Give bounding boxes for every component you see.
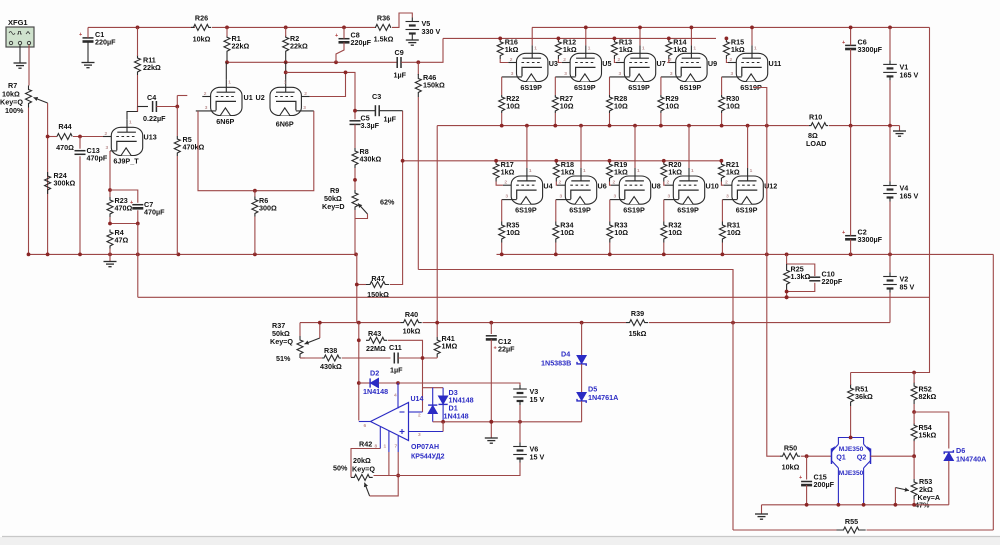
wire XFG1 right terminal down to R7 — [28, 45, 30, 86]
triode U1 — [196, 79, 242, 126]
wire U10 plate to output rail — [688, 126, 690, 168]
wire diode pair top link — [423, 387, 444, 389]
svg-text:U5: U5 — [602, 59, 611, 68]
wire D6 bottom — [948, 461, 950, 505]
svg-text:3: 3 — [668, 194, 671, 200]
resistor R31 cathode — [719, 221, 740, 243]
resistor R5 — [174, 135, 204, 156]
resistor R30 cathode — [719, 94, 740, 113]
svg-text:470kΩ: 470kΩ — [183, 143, 205, 152]
wire U14 output — [359, 421, 371, 423]
function generator XFG1 — [6, 18, 34, 47]
wire plate row 62 — [227, 61, 397, 63]
svg-text:6: 6 — [364, 423, 367, 429]
wire R44 left lead — [48, 136, 57, 138]
wire R13 to grid — [614, 59, 616, 63]
wire R21 to grid — [721, 182, 723, 186]
wire R23 bottom to C7 bottom — [110, 210, 138, 223]
wire C1 top — [87, 27, 89, 38]
svg-text:1N4740A: 1N4740A — [956, 455, 986, 464]
wire R12 to grid — [558, 59, 561, 63]
junction dots bank1 grid wire — [498, 37, 728, 41]
wire R22 to output rail — [501, 113, 503, 126]
wire R25C10 bottom link — [787, 283, 815, 292]
junction R52 top — [912, 371, 916, 375]
svg-text:1kΩ: 1kΩ — [673, 45, 687, 54]
wire U12 plate to output rail — [747, 126, 749, 168]
ground below XFG1 — [14, 63, 27, 68]
resistor R20 grid stopper — [661, 160, 682, 182]
wire R15 to grid — [726, 59, 728, 63]
svg-text:1: 1 — [642, 45, 645, 51]
svg-text:6S19P: 6S19P — [623, 206, 645, 215]
wire U5 cathode to R27 — [554, 77, 556, 95]
wire R28 to output rail — [609, 113, 611, 126]
ground below R4 — [104, 262, 117, 267]
svg-text:1: 1 — [691, 168, 694, 174]
wire U3 cathode to R22 — [501, 77, 503, 95]
svg-text:10kΩ: 10kΩ — [782, 463, 800, 472]
wire R30 to output rail — [721, 113, 723, 126]
wire R16 to grid — [500, 59, 508, 63]
svg-text:51%: 51% — [276, 354, 291, 363]
svg-text:470Ω: 470Ω — [56, 143, 74, 152]
junction top rail — [136, 26, 346, 30]
potentiometer R53 body — [911, 479, 917, 499]
resistor R11 — [135, 55, 161, 75]
resistor R4 — [107, 228, 128, 249]
svg-text:3: 3 — [731, 71, 734, 77]
svg-text:1µF: 1µF — [394, 71, 407, 80]
wire C6 top — [850, 27, 852, 45]
svg-text:1kΩ: 1kΩ — [668, 167, 682, 176]
wire D5 bottom — [581, 401, 583, 422]
junction dots bottom left rail — [27, 253, 358, 257]
svg-text:220µF: 220µF — [95, 38, 116, 47]
wire long rail 297 — [138, 296, 930, 298]
wire R23 top to C7 top — [110, 190, 138, 203]
wire R36 to V5 — [392, 13, 412, 27]
junction C15 top — [805, 454, 809, 458]
junction C11 node — [421, 356, 425, 360]
wire ground row stem — [761, 505, 763, 514]
resistor R34 cathode — [553, 221, 574, 243]
svg-text:6J9P_T: 6J9P_T — [113, 157, 139, 166]
wire opamp vplus pin — [397, 383, 399, 409]
capacitor C10 — [809, 270, 843, 287]
wire 733 column — [732, 270, 734, 531]
junction dots output rail — [500, 124, 769, 128]
resistor R40 — [401, 310, 422, 336]
wire C7 bottom down to long rail — [137, 224, 139, 298]
svg-text:1kΩ: 1kΩ — [731, 45, 745, 54]
svg-text:3: 3 — [511, 71, 514, 77]
wire right tall vertical — [992, 254, 994, 530]
junction emitter mid — [849, 436, 853, 440]
svg-text:10Ω: 10Ω — [560, 228, 574, 237]
op-amp U14 — [364, 396, 445, 461]
capacitor C1 — [79, 30, 116, 47]
diode D6 1N4740A — [944, 446, 986, 464]
svg-text:U13: U13 — [144, 133, 157, 142]
potentiometer R7 body — [26, 86, 32, 108]
junction R37 wiper — [318, 321, 322, 325]
svg-text:U8: U8 — [652, 182, 661, 191]
wire R47 right up to C3 — [390, 111, 403, 285]
svg-text:1kΩ: 1kΩ — [501, 167, 515, 176]
junction R52 bottom — [912, 410, 916, 414]
triode U4 6S19P — [502, 168, 553, 215]
svg-text:D2: D2 — [370, 369, 379, 378]
wire row 72 U2 plate to C5 — [286, 72, 355, 119]
wire U10 cathode to R32 — [663, 200, 665, 222]
junction R4 top — [108, 222, 140, 226]
svg-text:10Ω: 10Ω — [614, 228, 628, 237]
wire output rail — [437, 125, 806, 127]
svg-text:1N5383B: 1N5383B — [541, 359, 571, 368]
wire U2 grid right up — [310, 72, 346, 96]
resistor R27 cathode — [552, 94, 573, 113]
svg-text:1: 1 — [693, 45, 696, 51]
svg-text:3300µF: 3300µF — [858, 235, 883, 244]
svg-text:1N4761A: 1N4761A — [588, 393, 618, 402]
ground right of V1 — [893, 131, 906, 136]
wire U13 cathode to R23 — [109, 151, 111, 197]
svg-text:0.22µF: 0.22µF — [143, 114, 166, 123]
junction R44 wiper node — [46, 135, 50, 139]
resistor R6 — [252, 196, 277, 217]
wire D1 bottom — [432, 414, 434, 422]
svg-text:U9: U9 — [708, 59, 717, 68]
svg-text:3: 3 — [205, 105, 208, 111]
svg-text:C9: C9 — [395, 48, 404, 57]
junction R6 top — [253, 189, 257, 193]
potentiometer R37 body — [297, 336, 303, 358]
wire R54 bottom — [913, 441, 915, 456]
wire C9 right to grid wire riser — [401, 38, 443, 62]
wire V2 top — [889, 254, 891, 272]
svg-text:6S19P: 6S19P — [628, 83, 650, 92]
wire plate rail to right corner — [852, 26, 930, 28]
svg-text:1: 1 — [129, 119, 132, 125]
svg-text:1kΩ: 1kΩ — [614, 167, 628, 176]
wire R25C10 top link — [787, 264, 815, 276]
svg-text:10Ω: 10Ω — [560, 102, 574, 111]
wire R31 to cathode rail — [721, 243, 723, 255]
wire U9 plate to rail — [690, 27, 692, 45]
svg-text:2: 2 — [669, 57, 672, 63]
svg-text:3: 3 — [726, 194, 729, 200]
wire U14 + input up — [442, 422, 444, 432]
svg-text:10Ω: 10Ω — [665, 102, 679, 111]
resistor R50 — [780, 444, 800, 472]
svg-text:1kΩ: 1kΩ — [505, 45, 519, 54]
svg-text:1: 1 — [534, 45, 537, 51]
resistor R8 — [352, 147, 381, 168]
wire R52 bottom — [913, 404, 915, 412]
svg-text:2: 2 — [563, 57, 566, 63]
resistor R17 grid stopper — [493, 160, 514, 182]
wire R50 feed from U11 cathode — [753, 88, 780, 457]
svg-text:10Ω: 10Ω — [726, 102, 740, 111]
wire rail to V2 — [649, 322, 890, 324]
diode D4 1N5383B — [541, 350, 586, 368]
junction diode bottom row — [441, 420, 522, 424]
svg-text:U2: U2 — [256, 93, 265, 102]
svg-text:82kΩ: 82kΩ — [919, 392, 937, 401]
svg-text:1: 1 — [583, 168, 586, 174]
svg-text:1: 1 — [637, 168, 640, 174]
wire C4 left lead — [138, 106, 149, 108]
R53 wiper arrow — [895, 488, 909, 492]
R37 wiper arrow — [305, 338, 320, 345]
wire R46 top lead — [417, 62, 419, 75]
junction C3 left on C5 column — [353, 109, 357, 113]
svg-text:1µF: 1µF — [390, 366, 403, 375]
wire opamp rail — [300, 322, 401, 324]
svg-text:430kΩ: 430kΩ — [320, 362, 342, 371]
wire bank1 grid wire — [443, 37, 716, 39]
ground output row — [755, 514, 768, 519]
triode U11 6S19P — [722, 45, 782, 92]
capacitor C12 — [486, 336, 515, 354]
wire R46 bottom long drop — [417, 97, 419, 270]
resistor R51 — [848, 384, 873, 406]
svg-text:U14: U14 — [411, 396, 424, 403]
junction dots ground row — [805, 503, 916, 507]
svg-text:2: 2 — [618, 57, 621, 63]
svg-text:R43: R43 — [368, 329, 381, 338]
svg-text:U11: U11 — [769, 59, 782, 68]
svg-text:+: + — [842, 230, 845, 236]
junction row62 — [225, 60, 338, 64]
wire C4 right to U1 grid column — [156, 96, 177, 107]
svg-text:15kΩ: 15kΩ — [629, 329, 647, 338]
junction C13 top — [78, 135, 82, 139]
svg-text:1.5kΩ: 1.5kΩ — [374, 35, 394, 44]
capacitor C5 — [350, 114, 380, 131]
wire C15 top — [806, 456, 808, 479]
svg-text:100%: 100% — [5, 106, 24, 115]
wire R34 to cathode rail — [555, 243, 557, 255]
resistor R28 cathode — [607, 94, 628, 113]
wire R47 left lead — [357, 284, 366, 286]
svg-text:2: 2 — [730, 57, 733, 63]
junction long rail — [785, 295, 789, 299]
svg-text:C4: C4 — [147, 93, 156, 102]
svg-text:U7: U7 — [657, 59, 666, 68]
R53 labels — [915, 477, 940, 510]
ground below C1 — [82, 63, 95, 68]
svg-text:1: 1 — [754, 45, 757, 51]
resistor R1 — [224, 34, 249, 53]
svg-text:Key=Q: Key=Q — [352, 465, 375, 474]
resistor R38 — [320, 346, 342, 371]
triode U6 6S19P — [556, 168, 607, 215]
wire Q1 emitter up — [838, 438, 863, 445]
svg-text:10Ω: 10Ω — [727, 228, 741, 237]
svg-text:470µF: 470µF — [144, 208, 165, 217]
svg-text:3: 3 — [614, 194, 617, 200]
wire R51 top — [850, 373, 852, 386]
wire R19 to grid — [610, 182, 612, 186]
wire R51 bottom to emitters — [850, 406, 852, 438]
wire R43 left column — [358, 323, 360, 421]
svg-text:Q1: Q1 — [836, 452, 846, 461]
R9 labels — [322, 186, 395, 211]
wire C2 bottom — [850, 239, 852, 254]
wire R10 row — [806, 125, 809, 127]
resistor R18 grid stopper — [553, 160, 574, 182]
wire R53 bottom — [913, 499, 915, 505]
capacitor C15 — [799, 473, 835, 490]
svg-text:+: + — [335, 33, 338, 39]
R9 wiper arrow — [358, 204, 368, 215]
wire U5 plate to rail — [585, 27, 587, 45]
wire C13 top lead — [79, 137, 81, 149]
svg-text:2: 2 — [204, 91, 207, 97]
svg-text:3: 3 — [418, 432, 421, 438]
wire U8 plate to output rail — [634, 126, 636, 168]
wire R9 bottom to rail — [354, 210, 356, 254]
wire U14 pin1 down — [388, 452, 390, 476]
wire cathode rail — [497, 253, 994, 255]
diode D2 1N4148 — [363, 369, 388, 397]
triode U10 6S19P — [664, 168, 719, 215]
wire R2 bottom to row62 — [285, 53, 287, 62]
wire R10 right row — [829, 125, 900, 127]
resistor R55 — [837, 517, 866, 545]
wire R53 wiper down — [894, 488, 896, 505]
svg-text:2: 2 — [613, 180, 616, 186]
svg-text:1kΩ: 1kΩ — [563, 45, 577, 54]
svg-text:330 V: 330 V — [422, 27, 441, 36]
svg-text:КР544УД2: КР544УД2 — [411, 454, 445, 461]
resistor R42 pot body — [351, 474, 373, 480]
wire R54 top — [913, 412, 915, 424]
pin4 label — [394, 393, 397, 399]
svg-text:R50: R50 — [784, 444, 797, 453]
wire R25 top — [786, 254, 788, 264]
svg-text:15 V: 15 V — [530, 453, 545, 462]
resistor R24 — [45, 171, 76, 194]
svg-text:10Ω: 10Ω — [614, 102, 628, 111]
junction opamp V+ node — [396, 381, 400, 385]
svg-text:2: 2 — [725, 180, 728, 186]
wire C2 top long — [850, 126, 852, 236]
svg-text:4: 4 — [394, 393, 397, 399]
svg-text:7: 7 — [395, 444, 398, 450]
wire R32 to cathode rail — [663, 243, 665, 255]
svg-text:22kΩ: 22kΩ — [290, 42, 308, 51]
junction dots bank1 plate rail — [584, 26, 754, 30]
wire C8 bottom to row62 — [336, 42, 344, 62]
svg-text:300kΩ: 300kΩ — [54, 179, 76, 188]
junction U2 plate row72 — [284, 71, 288, 75]
wire R43 right column — [388, 340, 423, 412]
wire U13 plate to R11/C4 node — [127, 107, 138, 120]
wire R18 to grid — [555, 182, 558, 186]
svg-text:2: 2 — [667, 180, 670, 186]
wire top rail mid — [212, 26, 375, 28]
wire U7 plate to rail — [639, 27, 641, 45]
wire R46 row right to 733 column — [418, 270, 733, 298]
svg-text:1: 1 — [228, 79, 231, 85]
capacitor C8 — [335, 31, 372, 48]
wire R44 to U13 grid — [73, 136, 103, 138]
wire R35 to cathode rail — [501, 243, 503, 255]
resistor R47 — [366, 274, 389, 299]
wire U14 pin7 down — [397, 452, 399, 476]
resistor R41 — [434, 334, 457, 357]
wire R53 top — [913, 456, 915, 479]
resistor R21 grid stopper — [718, 160, 739, 182]
svg-text:36kΩ: 36kΩ — [855, 392, 873, 401]
svg-text:R40: R40 — [405, 310, 418, 319]
junction R23 top node — [108, 188, 112, 192]
wire V3 bottom — [519, 405, 521, 422]
svg-text:10kΩ: 10kΩ — [193, 35, 211, 44]
resistor R12 grid stopper — [555, 37, 576, 59]
svg-text:47Ω: 47Ω — [115, 236, 129, 245]
wire bank2 grid wire — [403, 160, 722, 162]
svg-text:R47: R47 — [371, 274, 384, 283]
svg-text:6S19P: 6S19P — [680, 83, 702, 92]
U1 U2 designators — [244, 93, 265, 102]
resistor R10 — [809, 123, 828, 129]
svg-text:85 V: 85 V — [900, 283, 915, 292]
junction C12 ground node — [489, 420, 493, 424]
wire R42 wiper loop — [370, 476, 399, 496]
svg-text:C3: C3 — [372, 92, 381, 101]
wire D2 right lead — [379, 382, 399, 384]
svg-text:2: 2 — [510, 57, 513, 63]
resistor R2 — [283, 34, 308, 53]
wire D2 left lead — [359, 382, 370, 384]
resistor R23 — [107, 196, 132, 217]
svg-text:6S19P: 6S19P — [677, 206, 699, 215]
wire XFG1 middle terminal to ground — [19, 45, 21, 63]
wire U6 plate to output rail — [580, 126, 582, 168]
svg-text:Q2: Q2 — [857, 452, 867, 461]
wire R25 bottom to rail297 — [786, 292, 788, 298]
wire R37 wiper up — [319, 323, 321, 338]
wire output rail feedback drop — [436, 126, 438, 337]
svg-text:R38: R38 — [324, 346, 337, 355]
wire R29 to output rail — [660, 113, 662, 126]
svg-text:3: 3 — [303, 105, 306, 111]
wire R1 top — [226, 27, 228, 36]
wire R37 to R38 — [300, 357, 322, 359]
svg-text:U3: U3 — [549, 59, 558, 68]
wire U1 plate up — [225, 62, 227, 79]
junction R42 pin node — [396, 474, 400, 478]
svg-text:2: 2 — [504, 180, 507, 186]
svg-text:U10: U10 — [706, 182, 719, 191]
svg-text:10Ω: 10Ω — [668, 228, 682, 237]
triode U9 6S19P — [661, 45, 717, 92]
resistor R36 — [374, 14, 394, 44]
svg-text:+: + — [130, 200, 133, 206]
svg-text:OP07AH: OP07AH — [411, 444, 439, 451]
wire R7 wiper right then down to bottom rail — [47, 103, 49, 254]
svg-text:R55: R55 — [845, 517, 858, 526]
triode U3 6S19P — [502, 45, 558, 92]
diode D1 1N4148 — [428, 404, 469, 421]
battery V4 — [883, 182, 918, 202]
svg-text:10kΩ: 10kΩ — [403, 327, 421, 336]
R37 labels — [270, 321, 293, 363]
